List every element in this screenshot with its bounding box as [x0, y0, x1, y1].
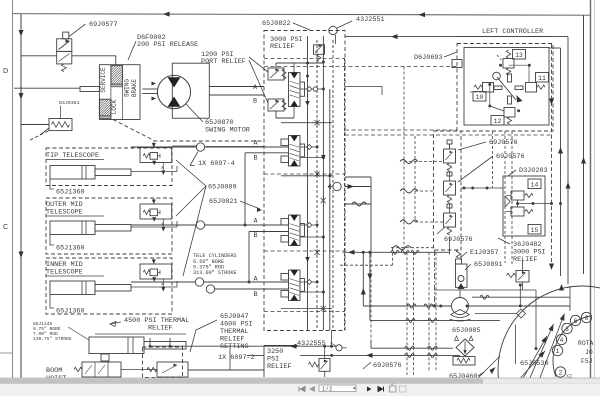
inner valve wires: [131, 286, 177, 288]
boom wires: [149, 338, 151, 346]
svg-text:69J0576: 69J0576: [489, 139, 518, 147]
svg-text:SWING: SWING: [124, 79, 131, 97]
toolbar first page button: [299, 387, 305, 392]
vertical 370 with down arrow: [369, 252, 371, 320]
bus dashed pilot 2: [332, 40, 334, 330]
inner holding valve: [140, 264, 172, 279]
svg-text:12: 12: [494, 118, 502, 125]
D3J0283 bowtie: [505, 196, 510, 207]
bank tie line 1: [281, 122, 332, 124]
D3J0283 wires: [517, 200, 519, 207]
star marks: [315, 171, 320, 176]
svg-text:65J0085: 65J0085: [452, 327, 481, 335]
left margin tick: [0, 352, 12, 354]
wire B2 link down: [245, 152, 289, 154]
svg-text:1 / 2: 1 / 2: [322, 386, 332, 392]
svg-text:15: 15: [531, 227, 539, 234]
V1 check diamond: [307, 87, 312, 92]
solid corner bank right: [345, 176, 371, 178]
wire B4: [215, 288, 289, 290]
svg-text:F5J: F5J: [581, 358, 593, 365]
wire motor port A: [209, 86, 264, 88]
svg-text:65J1360: 65J1360: [56, 245, 85, 253]
svg-text:D6J0693: D6J0693: [414, 54, 443, 62]
bus right 1 from border: [583, 15, 585, 274]
dashed vertical 371 lower: [370, 255, 372, 341]
boom wire right: [188, 369, 264, 371]
svg-text:43J2551: 43J2551: [356, 16, 385, 24]
leader 65J1345: [68, 327, 89, 340]
page left edge line: [12, 0, 14, 378]
svg-text:69J0576: 69J0576: [373, 362, 402, 370]
right column wires: [449, 144, 451, 149]
bus line T: [322, 36, 324, 330]
leader 4500psi: [110, 322, 121, 324]
bottom long wire 2: [247, 354, 264, 356]
port relief V1 top: [268, 68, 284, 80]
svg-text:E1J0357: E1J0357: [470, 249, 499, 257]
left controller inner box: [464, 48, 549, 126]
diamond symbol: [517, 309, 526, 318]
bank tie line 3: [281, 308, 332, 310]
check diamond: [307, 145, 312, 150]
line y297: [472, 296, 570, 298]
bus line third: [329, 89, 331, 330]
pilot dashed verticals to E1J0357 zone: [504, 131, 506, 263]
border arrow down 1: [19, 30, 24, 37]
svg-text:65J0089: 65J0089: [208, 184, 237, 192]
controller down arrow: [549, 99, 554, 106]
wire frame to 69J0577: [21, 55, 57, 57]
tip telescope dashed box: [46, 148, 172, 186]
solenoid mark: [281, 274, 289, 281]
tip holding valve: [140, 148, 172, 163]
dashed pilot horizontals: [345, 129, 457, 131]
svg-text:3: 3: [565, 326, 569, 333]
svg-text:RELIEF: RELIEF: [270, 43, 294, 51]
left controller dashed box: [457, 44, 553, 132]
relief valve 3000psi: [314, 45, 325, 55]
svg-text:65J0821: 65J0821: [209, 198, 238, 206]
svg-text:LOCK: LOCK: [111, 99, 118, 114]
service lock swing brake block: [99, 65, 140, 120]
controller pilot dashes: [470, 91, 483, 93]
svg-text:ROTA: ROTA: [578, 340, 594, 347]
bank separator dashed 3: [264, 250, 345, 252]
numbered box 10: [473, 92, 486, 102]
svg-text:PORT RELIEF: PORT RELIEF: [201, 58, 246, 66]
outer holding valve: [140, 204, 172, 219]
wire motor port B: [209, 94, 264, 96]
pilot dashes D3J0381: [30, 131, 49, 140]
bus dashed pilot 3: [344, 58, 346, 330]
wavy break on dashed y191: [400, 189, 418, 193]
svg-text:69J0576: 69J0576: [496, 153, 525, 161]
pilot dashed line brake: [113, 120, 264, 142]
rotary port circle 4: [556, 334, 566, 344]
vertical 363 with up arrow: [362, 252, 364, 306]
svg-text:200 PSI RELEASE: 200 PSI RELEASE: [137, 41, 198, 49]
svg-text:65J0891: 65J0891: [474, 261, 503, 269]
valve bank dashed enclosure: [264, 31, 345, 331]
test port circle 6097-4: [196, 143, 204, 151]
numbered box 13: [513, 50, 526, 60]
test port circle mid: [196, 221, 204, 229]
V1 down arrow: [305, 101, 310, 106]
wavy break on dashed y161: [400, 160, 418, 164]
scrollbar track: [0, 378, 600, 384]
svg-text:D: D: [3, 66, 8, 75]
svg-text:RELIEF: RELIEF: [513, 256, 537, 264]
leader 1200 psi to reliefs: [249, 57, 268, 72]
solenoid valve 69J0577: [57, 39, 72, 52]
brake rod: [80, 87, 99, 92]
rotary port circle 2: [555, 367, 565, 377]
svg-text:11: 11: [538, 75, 546, 82]
boom control valve: [82, 362, 121, 377]
border arrow down 3: [19, 252, 24, 259]
svg-text:6: 6: [574, 318, 578, 325]
boom hoist cylinder 65J1345: [89, 337, 144, 354]
rotary port circle 3: [562, 323, 572, 333]
bank separator dashed 4: [264, 311, 345, 313]
solenoid mark: [281, 139, 289, 146]
svg-text:LEFT CONTROLLER: LEFT CONTROLLER: [482, 28, 543, 36]
brake hatch box 2: [99, 99, 111, 116]
toolbar prev page button: [310, 387, 315, 392]
V1 orifice circle: [313, 87, 317, 91]
line y290: [435, 289, 537, 291]
numbered box 11: [536, 73, 549, 83]
controller valve left: [483, 83, 494, 93]
outer mid cylinder 65J1360: [50, 221, 95, 235]
D3J0283 box: [503, 176, 545, 236]
rotary port circle 8: [581, 312, 591, 322]
top frame arrow left 1: [163, 12, 170, 17]
filter box 65J0460: [456, 339, 474, 356]
svg-text:TELESCOPE: TELESCOPE: [46, 209, 83, 217]
controller lever: [497, 77, 516, 100]
controller valve down: [504, 108, 515, 118]
wire 69J0577 right: [72, 56, 116, 65]
relief valve 36J0482: [516, 271, 529, 283]
V2 test circle: [333, 182, 341, 190]
wire B3 link down: [249, 231, 289, 233]
scrollbar thumb: [0, 379, 483, 384]
solenoid valve 69J0576 no2: [444, 181, 456, 195]
border arrow down 2: [19, 93, 24, 100]
top frame arrow left 2: [419, 12, 426, 17]
outer mid dashed box: [46, 198, 172, 254]
pump fans: [451, 310, 470, 318]
wire tip A to bank: [172, 145, 197, 147]
inner mid cylinder 65J1360: [50, 281, 95, 295]
svg-text:8: 8: [585, 315, 589, 322]
rotary feed verticals: [519, 285, 521, 306]
V1 wires: [275, 63, 277, 68]
svg-text:X2: X2: [566, 374, 572, 380]
inner mid dashed box: [46, 258, 172, 314]
numbered box 15: [528, 225, 541, 235]
wavy break on dashed y222: [400, 220, 418, 224]
spool valve at 270: [289, 270, 301, 301]
bus wire A right: [345, 87, 382, 96]
svg-text:JO: JO: [585, 349, 593, 356]
wire A inner to V4: [131, 281, 195, 283]
svg-text:C: C: [3, 222, 8, 231]
right column dashed frame: [434, 131, 462, 250]
bank tie line 2: [281, 175, 332, 177]
toolbar last page button: [378, 387, 384, 392]
tip telescope cylinder 65J1360: [50, 166, 95, 180]
label 65J0085 arrows: [455, 336, 459, 341]
solenoid valve 69J0576 no1: [444, 149, 456, 163]
svg-text:X: X: [161, 165, 164, 171]
boom relief valve: [157, 362, 188, 377]
D3J0283 valve b: [511, 207, 524, 216]
solenoid mark: [281, 219, 289, 226]
svg-text:D3J0283: D3J0283: [519, 167, 548, 175]
controller wires: [509, 64, 530, 66]
toolbar next page button: [367, 387, 372, 392]
swing motor 65J0870: [157, 75, 190, 108]
bottom long wire 1: [343, 251, 450, 253]
dashed verticals right of bank: [403, 67, 405, 251]
bus line P: [307, 36, 309, 330]
svg-text:130.75" STROKE: 130.75" STROKE: [33, 336, 72, 342]
boom solenoid: [101, 354, 109, 361]
rotary spoke lines: [504, 351, 545, 396]
wire frame to D3J0381: [21, 124, 49, 126]
svg-text:SWING MOTOR: SWING MOTOR: [205, 127, 250, 135]
outer valve wires: [131, 226, 177, 228]
svg-text:65J1360: 65J1360: [56, 308, 85, 316]
rotary port circle 6: [570, 315, 580, 325]
svg-text:SETTING: SETTING: [220, 343, 249, 351]
line y348: [370, 340, 372, 348]
svg-text:65J0822: 65J0822: [262, 20, 291, 28]
bottom wire 3: [150, 345, 336, 347]
rotary corner diagonal: [478, 356, 500, 378]
D3J0283 valve a: [511, 191, 524, 200]
schematic border left: [20, 14, 22, 378]
svg-text:1X 6097-4: 1X 6097-4: [198, 160, 235, 168]
page right edge line: [590, 0, 592, 378]
toolbar history back icon: [390, 386, 397, 392]
test port circle 43J2551: [329, 26, 337, 34]
rotary joint outer circle: [498, 286, 600, 396]
bus right 2: [345, 36, 568, 38]
spool valve at 215: [289, 215, 301, 246]
solenoid valve E1J0357: [456, 264, 468, 287]
svg-text:69J0577: 69J0577: [89, 21, 118, 29]
controller valve up: [503, 59, 514, 69]
svg-text:313.00" STROKE: 313.00" STROKE: [193, 270, 237, 276]
svg-text:43J2555: 43J2555: [297, 340, 326, 348]
motor inlet arrows: [152, 82, 157, 86]
pump circle 65J0085: [452, 298, 469, 315]
wire 43J2551 down: [334, 35, 336, 44]
bus dashed pilot 1: [316, 40, 318, 330]
check diamond: [307, 223, 312, 228]
dashed verticals lower set: [392, 248, 394, 266]
line y313: [475, 313, 517, 315]
svg-text:4: 4: [560, 337, 564, 344]
svg-text:1: 1: [556, 348, 560, 355]
svg-text:69J0576: 69J0576: [444, 236, 473, 244]
spool valve V1: [289, 73, 301, 107]
rotary port circle 1: [552, 345, 562, 355]
wire A tip to V2: [131, 146, 196, 148]
svg-text:TIP TELESCOPE: TIP TELESCOPE: [46, 152, 99, 160]
controller valve right: [526, 83, 537, 93]
V4 down arrows: [305, 257, 310, 262]
brake hatch box 1: [111, 66, 123, 85]
bank separator dashed 2: [264, 173, 345, 175]
line y320: [370, 319, 500, 321]
pilot dashed vertical 492: [492, 131, 494, 188]
controller connector tab: [452, 60, 462, 68]
svg-text:B: B: [254, 232, 258, 240]
pump wires: [459, 287, 461, 297]
test circles inner: [195, 278, 203, 286]
boom dashed box: [143, 347, 183, 378]
check diamond: [307, 280, 312, 285]
wavy break on dashed y247: [393, 246, 411, 250]
port relief V1 bottom: [268, 99, 284, 111]
svg-text:BRAKE: BRAKE: [131, 79, 138, 97]
svg-text:B: B: [253, 98, 257, 106]
page top edge line: [13, 14, 592, 16]
bus arrows: [558, 147, 563, 154]
bus right 3: [549, 47, 561, 49]
numbered box 14: [528, 179, 541, 189]
test circle 43J2555: [336, 345, 342, 351]
svg-text:2: 2: [559, 369, 563, 376]
toolbar history fwd icon: [400, 386, 407, 392]
pump suction line y306: [363, 305, 451, 307]
bank separator dashed 1: [264, 58, 345, 60]
wire A outer to V3: [131, 224, 196, 226]
svg-text:TELESCOPE: TELESCOPE: [46, 269, 83, 277]
label 3250 PSI RELIEF: [263, 346, 265, 378]
relief valve 3250: [319, 359, 330, 372]
swing motor box: [172, 63, 209, 118]
leaders 65J0089: [176, 160, 206, 186]
leader 65J0947: [196, 320, 217, 330]
rotary joint inner rim arc: [553, 316, 590, 377]
toolbar background: [0, 384, 600, 396]
solenoid valve 69J0576 no3: [444, 213, 456, 227]
svg-text:B: B: [254, 155, 258, 163]
toolbar page combo box: [319, 385, 356, 392]
svg-text:RELIEF: RELIEF: [148, 325, 172, 333]
numbered box 12: [491, 116, 504, 126]
svg-text:D3J0381: D3J0381: [59, 100, 80, 106]
svg-text:RELIEF: RELIEF: [267, 363, 291, 371]
bus right dashed: [551, 44, 553, 267]
svg-text:65J1360: 65J1360: [56, 189, 85, 197]
valve D3J0381: [49, 119, 72, 131]
tip valve wires: [131, 171, 177, 173]
controller links: [494, 86, 502, 90]
svg-text:14: 14: [531, 182, 539, 189]
motor shaft: [142, 88, 157, 90]
svg-text:SERVICE: SERVICE: [100, 67, 107, 93]
svg-text:10: 10: [476, 94, 484, 101]
svg-text:B: B: [254, 291, 258, 299]
spool valve at 135.5: [289, 136, 301, 167]
svg-text:13: 13: [515, 52, 523, 59]
svg-text:BOOM: BOOM: [46, 367, 62, 375]
